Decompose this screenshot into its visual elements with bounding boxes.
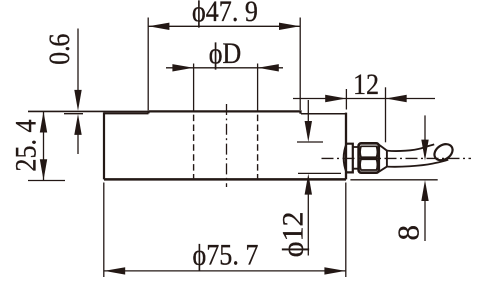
- dimension 12 : left arrow (outside, pointing right): [325, 95, 346, 102]
- dimension Ø12 : lower extension line: [298, 172, 341, 174]
- dimension 12 : extension line right (hex nut right edge extended up): [385, 87, 387, 142]
- dimension ØD : dimension line: [166, 67, 283, 69]
- dimension Ø47.9 : extension line right: [299, 18, 301, 111]
- svg-text:0.6: 0.6: [43, 34, 76, 65]
- dimension ØD : extension line right: [257, 64, 259, 113]
- svg-text:25. 4: 25. 4: [10, 119, 43, 171]
- vertical centerline of body: [226, 104, 228, 187]
- dimension 25.4 : dimension line: [43, 112, 45, 181]
- dimension 0.6 : lower stem and up arrow: [77, 134, 79, 154]
- dimension Ø47.9 : dimension line: [148, 25, 300, 27]
- svg-text:ϕ75. 7: ϕ75. 7: [193, 239, 259, 272]
- cable: top edge curving up: [387, 144, 434, 151]
- hidden hole line left (ØD): [193, 115, 195, 179]
- dimension 12 : right arrow (outside, pointing left): [386, 95, 407, 102]
- dimension 8 : upper stem and down arrow: [424, 115, 426, 140]
- dimension Ø75.7 : dimension line: [104, 270, 346, 272]
- dimension ØD : extension line left: [193, 64, 195, 113]
- dimension Ø12 : lower stem and up arrow: [307, 194, 309, 256]
- dimension Ø75.7 : right arrow: [324, 267, 345, 274]
- gland thread shank: [353, 147, 359, 169]
- dimension ØD : left arrow (outside, pointing right): [172, 64, 193, 71]
- cable: bottom edge curving up: [387, 160, 448, 167]
- dimension 12 : extension line left (body right edge extended up): [345, 89, 347, 110]
- dimension 0.6 : short extension line at boss base: [64, 113, 83, 115]
- svg-text:ϕ12: ϕ12: [277, 212, 310, 258]
- dimension 25.4 : extension line top: [28, 110, 148, 112]
- dimension Ø75.7 : extension line right: [345, 183, 347, 278]
- dimension 25.4 : top arrow: [40, 112, 47, 133]
- dimension Ø47.9 : right arrow: [279, 23, 300, 30]
- dimension Ø75.7 : left arrow: [104, 267, 125, 274]
- dimension Ø75.7 : extension line left: [103, 183, 105, 278]
- dimension Ø12 : upper extension line: [297, 141, 323, 143]
- svg-text:12: 12: [353, 68, 379, 101]
- hidden hole line right (ØD): [257, 115, 259, 179]
- dimension 8 : lower stem and up arrow: [424, 201, 426, 242]
- hex nut of cable gland: [359, 143, 379, 172]
- gland cone (strain relief): [379, 145, 387, 172]
- dimension 25.4 : extension line bottom: [28, 180, 65, 182]
- cable gland washer (left collar with curved face): [344, 144, 353, 173]
- dimension 0.6 : upper stem and down arrow: [77, 29, 79, 92]
- svg-text:ϕD: ϕD: [209, 37, 242, 70]
- horizontal centerline of cable fitting: [322, 157, 472, 159]
- body outline (load cell, Ø75.7 x 25.4): [104, 112, 346, 179]
- dimension 12 : dimension line with tails: [293, 98, 435, 100]
- dimension Ø47.9 : extension line left: [147, 18, 149, 111]
- dimension ØD : right arrow (outside, pointing left): [258, 64, 279, 71]
- dimension 25.4 : bottom arrow: [40, 159, 47, 180]
- dimension 8 : reference line from body bottom: [350, 179, 437, 181]
- svg-text:ϕ47. 9: ϕ47. 9: [192, 0, 258, 28]
- raised boss (Ø47.9 x 0.6) on top: [149, 111, 301, 113]
- dimension Ø47.9 : left arrow: [148, 23, 169, 30]
- cable end loop (open tube end): [431, 141, 455, 164]
- svg-text:8: 8: [391, 225, 426, 241]
- dimension Ø12 : upper stem and down arrow: [307, 100, 309, 122]
